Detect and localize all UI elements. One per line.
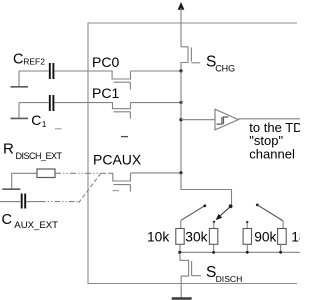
svg-text:1: 1 [42,119,47,129]
contact node 90k [246,221,248,223]
wire 10k top lead [180,220,182,228]
label: to the TDC "stop" channel [249,120,312,161]
wire C_1 to PC1 [54,102,113,104]
transistor S_DISCH [180,252,201,297]
switch lever (180k position, open) [256,204,283,229]
transistor PC1 [113,102,131,119]
chip boundary box [88,23,297,284]
wire 180k bottom lead [280,244,282,252]
capacitor C_AUX_EXT [22,194,26,209]
svg-text:CHG: CHG [215,64,235,74]
polarity dash below PCAUX [113,190,120,192]
switch lever (10k position, open) [181,204,206,220]
contact node 30k [213,221,215,223]
node (bus / PC0) [179,69,182,72]
node rail/90k [246,251,249,254]
transistor PCAUX [110,173,131,192]
label S_DISCH [206,264,242,284]
polarity dash near C_1 [55,128,62,130]
node (bus / PCAUX) [179,171,182,174]
capacitor C_1 [50,95,54,111]
ground (bottom) [172,297,192,299]
svg-text:channel: channel [249,147,295,162]
wire (dash-dot) resistor to PCAUX [55,172,110,174]
svg-text:AUX_EXT: AUX_EXT [14,220,58,231]
wire C_REF2 to PC0 [54,70,112,72]
transistor S_CHG [181,47,200,71]
ground (R_DISCH_EXT) [2,173,20,189]
label C_AUX_EXT [2,212,59,231]
wire C_AUX_EXT left (cut at edge) [0,201,21,203]
polarity dash below PC1 [121,136,128,138]
svg-text:DISCH: DISCH [216,274,243,284]
svg-text:90k: 90k [254,230,276,245]
wire 90k top lead [246,222,248,228]
node VCHARGE arrow (top) [178,2,185,47]
wire C_AUX_EXT right (solid then dash-dot) [26,201,40,203]
svg-text:PC1: PC1 [92,85,119,101]
svg-text:30k: 30k [185,230,207,245]
svg-text:C: C [13,52,23,68]
wire to comparator [181,119,215,121]
node rail/180k [279,251,282,254]
svg-text:C: C [31,112,41,128]
ground (C_1) [11,103,29,119]
wire 30k top lead [213,222,215,229]
label C_REF2 [13,52,45,68]
wire PCAUX drain to bus [131,172,182,174]
bus wire down to switch node [181,173,232,206]
resistor 90k [243,229,251,245]
bus wire (vertical) [180,71,182,173]
svg-text:DISCH_EXT: DISCH_EXT [16,151,63,161]
transistor PC0 [112,70,130,89]
svg-text:PCAUX: PCAUX [93,152,142,168]
capacitor C_REF2 [50,63,54,79]
wire C_1 left [19,102,49,104]
wire 30k bottom lead [213,244,215,252]
svg-text:"stop": "stop" [249,133,283,148]
svg-text:180k: 180k [291,230,300,245]
svg-text:R: R [3,140,14,157]
svg-text:PC0: PC0 [92,54,119,70]
label S_CHG [206,53,235,73]
wire PC1 drain to bus [131,102,182,104]
label C_1 [31,112,47,129]
wire resistor left [12,172,37,174]
label R_DISCH_EXT [3,140,63,161]
node rail/10k [178,251,181,254]
svg-text:C: C [2,212,12,228]
svg-text:10k: 10k [147,230,169,245]
switch wiper arrow (selects 30k) [216,206,231,220]
wire diagonal (dashed) joining PCAUX input [79,174,101,203]
wire C_REF2 left [19,70,49,72]
svg-text:REF2: REF2 [23,57,45,67]
wire comparator output [238,118,300,120]
wire 90k bottom lead [246,244,248,252]
node (bus / comparator tap) [179,118,182,121]
resistor 10k [176,229,184,245]
resistor 180k [278,229,287,245]
resistor 30k [209,229,217,245]
wire PC0 drain to bus [131,70,182,72]
ground (C_REF2) [11,71,29,87]
resistor R_DISCH_EXT [37,169,55,178]
node (bus / PC1) [179,101,182,104]
node (switch common) [229,204,233,208]
schmitt trigger U1 [215,109,238,130]
node rail/30k [212,251,215,254]
wire 10k bottom lead [179,244,181,252]
wire bottom rail [180,251,300,253]
